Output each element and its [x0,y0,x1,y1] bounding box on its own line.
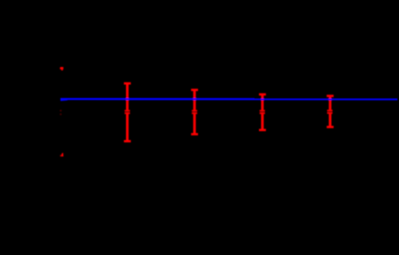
errorbar point 4 at x=330.1 [327,96,334,127]
errorbar point 0: bottom cap fragment [60,153,63,157]
errorbar point 3 at x=262.4 [259,94,266,130]
fit line left wedge [61,99,68,102]
errorbar point 2 at x=194.5 [191,90,198,134]
errorbar point 0 (clipped at axis edge): top cap fragment [60,67,64,71]
marker point 1 [125,110,130,114]
errorbar point 1 at x=127.3 [124,83,131,141]
errorbar point 0: faint marker edge dots [60,110,62,116]
marker point 2 [192,110,197,114]
marker point 4 [327,110,332,114]
fit line (blue) [60,98,397,100]
marker point 3 [260,110,265,114]
